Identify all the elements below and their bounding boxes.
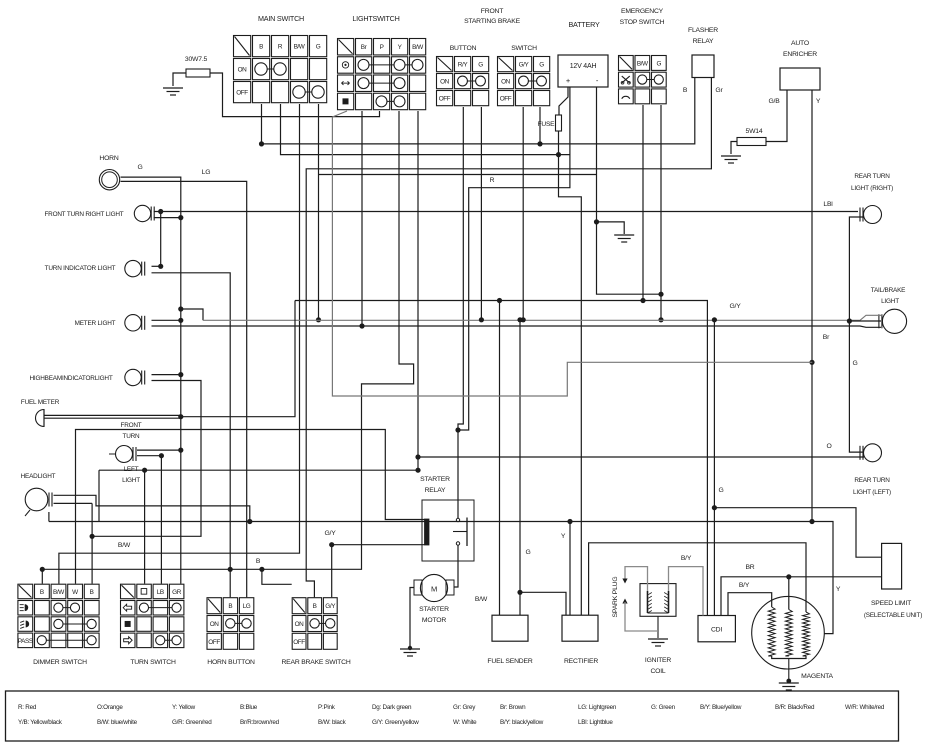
svg-text:Br/R:brown/red: Br/R:brown/red — [240, 719, 280, 726]
wire rear turn right to rear turn left link — [849, 217, 864, 452]
wire fuel meter pair — [44, 414, 181, 416]
svg-text:BUTTON: BUTTON — [450, 45, 477, 52]
rectifier — [562, 615, 598, 665]
flasher relay — [688, 27, 718, 78]
wire enricher G/B to fuse 5W14 — [766, 90, 787, 142]
main switch — [234, 36, 327, 103]
wire front turn left upper to G wire — [137, 449, 181, 451]
wire B/W line to CDI — [295, 301, 707, 616]
svg-text:Y/B: Yellow/black: Y/B: Yellow/black — [18, 719, 63, 726]
svg-text:PASS: PASS — [18, 638, 33, 645]
rear brake switch — [292, 598, 337, 650]
node fuel sender B/W on line — [497, 298, 502, 303]
node headlight feed — [247, 519, 252, 524]
svg-text:OFF: OFF — [439, 96, 451, 103]
svg-text:P:Pink: P:Pink — [318, 704, 336, 711]
svg-text:FRONT: FRONT — [120, 422, 141, 429]
svg-text:B/W: B/W — [637, 60, 649, 67]
turn switch — [121, 584, 184, 647]
wire B line step to rear brake — [262, 569, 292, 584]
node battery line on R wire — [556, 152, 561, 157]
magneto coil (center) — [785, 610, 792, 657]
node speed limit feed on CDI wire — [712, 505, 717, 510]
node turn indicator upper — [158, 264, 163, 269]
cdi — [698, 616, 735, 642]
node main switch G on meter line — [316, 317, 321, 322]
svg-text:OFF: OFF — [293, 639, 305, 646]
wire battery minus ground branch — [597, 222, 625, 234]
wire Y line riser at headlight — [48, 512, 50, 522]
node enricher Y on Y line — [809, 519, 814, 524]
node LB line right end — [415, 468, 420, 473]
svg-text:B/W: B/W — [412, 44, 424, 51]
svg-text:MAIN SWITCH: MAIN SWITCH — [258, 14, 304, 23]
wire speed limit feed — [714, 508, 881, 558]
svg-text:LBl: LBl — [823, 201, 833, 208]
svg-text:O:Orange: O:Orange — [97, 704, 123, 711]
node emergency B/W on B/W line — [640, 298, 645, 303]
wire fuse 5W14 to ground — [731, 142, 737, 155]
svg-text:B/Y: black/yellow: B/Y: black/yellow — [500, 719, 544, 726]
svg-text:ON: ON — [295, 621, 305, 628]
svg-text:G: Green: G: Green — [651, 704, 676, 711]
wire fuel sender G branch to rectifier — [520, 592, 566, 615]
speed limit unit — [864, 543, 922, 619]
legend entries — [18, 704, 885, 726]
node front turn left upper on G wire — [178, 448, 183, 453]
node light switch Br on Br wire — [359, 323, 364, 328]
svg-text:B/W: B/W — [53, 589, 65, 596]
svg-text:METER LIGHT: METER LIGHT — [75, 320, 116, 327]
svg-text:GR: GR — [172, 589, 182, 596]
svg-text:FUEL SENDER: FUEL SENDER — [487, 658, 532, 665]
front brake switch — [498, 57, 550, 106]
wire fuel meter to B/W line riser — [181, 301, 295, 417]
svg-text:G: G — [525, 549, 530, 556]
svg-text:G/Y: G/Y — [325, 603, 336, 610]
node G on gray tail wire — [809, 360, 814, 365]
fuel meter — [21, 399, 60, 427]
svg-text:REAR TURN: REAR TURN — [854, 477, 890, 484]
svg-text:LEFT: LEFT — [124, 466, 139, 473]
svg-text:REAR TURN: REAR TURN — [854, 173, 890, 180]
node front turn right lower on G wire — [178, 215, 183, 220]
svg-text:B/W: black: B/W: black — [318, 719, 347, 726]
svg-text:EMERGENCY: EMERGENCY — [621, 8, 664, 15]
magneto coil bus — [772, 656, 806, 659]
svg-text:5W14: 5W14 — [746, 128, 763, 135]
svg-text:B: B — [40, 589, 44, 596]
svg-text:SWITCH: SWITCH — [511, 45, 537, 52]
node rear brake G/Y — [329, 542, 334, 547]
magneto coil (left) — [768, 607, 775, 656]
igniter coil — [640, 584, 676, 675]
node B line branch — [259, 567, 264, 572]
svg-text:G/Y: G/Y — [519, 61, 530, 68]
wire G branch shelf to G/Y line — [181, 309, 203, 320]
wire spark plug top (gray) — [622, 567, 647, 591]
svg-text:(SELECTABLE UNIT): (SELECTABLE UNIT) — [864, 612, 922, 619]
front turn left light — [109, 422, 142, 484]
auto enricher — [780, 40, 820, 90]
svg-text:BR: BR — [745, 564, 754, 571]
svg-text:Br: Brown: Br: Brown — [500, 704, 526, 711]
node turn switch on LB line — [142, 468, 147, 473]
svg-text:RELAY: RELAY — [425, 487, 446, 494]
wire main switch G pin to meter light line — [318, 104, 320, 320]
node rear turn link on G/Y line — [847, 318, 852, 323]
svg-text:G: G — [539, 61, 544, 68]
wire rear turn light (left) feed — [418, 456, 864, 458]
node front brake switch G on B wire — [537, 141, 542, 146]
wire dimmer first B pin up — [41, 569, 43, 583]
svg-text:O: O — [826, 443, 831, 450]
node R join R/Y — [455, 427, 460, 432]
fuse 5W14 — [737, 128, 766, 146]
svg-text:R/Y: R/Y — [458, 61, 469, 68]
svg-text:LBl: Lightblue: LBl: Lightblue — [578, 719, 613, 726]
svg-text:Y: Y — [561, 533, 566, 540]
svg-text:G: G — [656, 60, 661, 67]
svg-text:TURN INDICATOR LIGHT: TURN INDICATOR LIGHT — [45, 265, 116, 272]
wire light switch Y chain to horn button B line — [42, 111, 413, 569]
wire battery plus through fuse — [559, 87, 568, 115]
rear turn light (right) — [851, 173, 893, 224]
node G wire meter branch — [178, 306, 183, 311]
wire CDI B/Y to magneto left coil — [728, 593, 772, 616]
svg-text:STARTER: STARTER — [419, 606, 449, 613]
svg-text:Gr: Grey: Gr: Grey — [453, 704, 476, 711]
svg-text:DIMMER SWITCH: DIMMER SWITCH — [33, 659, 87, 666]
magneto coil (right) — [803, 612, 810, 656]
svg-text:ON: ON — [501, 79, 511, 86]
wire dimmer B pin up to headlight — [91, 503, 93, 583]
wire turn switch lane pin to LB line — [144, 470, 146, 584]
headlight — [21, 473, 56, 516]
svg-text:FRONT: FRONT — [481, 8, 503, 15]
svg-text:MOTOR: MOTOR — [422, 617, 446, 624]
wire turn switch LB pin — [160, 456, 162, 584]
svg-text:ON: ON — [238, 67, 248, 74]
svg-text:BATTERY: BATTERY — [568, 20, 599, 29]
svg-text:B: B — [683, 87, 688, 94]
wire fuel sender B/W pin — [499, 301, 501, 616]
svg-text:LG: LG — [202, 169, 211, 176]
svg-text:G: G — [852, 360, 857, 367]
battery — [558, 20, 608, 87]
wire emergency stop B/W pin — [642, 105, 644, 301]
horn — [99, 155, 119, 190]
front brake button — [437, 57, 489, 106]
svg-text:B/Y: B/Y — [681, 555, 692, 562]
tail/brake light — [871, 287, 907, 333]
horn button — [207, 598, 254, 650]
ground (30W7.5) — [163, 88, 183, 95]
svg-text:R: R — [490, 177, 495, 184]
svg-text:12V 4AH: 12V 4AH — [570, 63, 597, 70]
svg-text:OFF: OFF — [208, 639, 220, 646]
svg-text:LIGHT: LIGHT — [881, 298, 899, 305]
wire front brake button G pin — [480, 107, 482, 320]
svg-text:G/Y: Green/yellow: G/Y: Green/yellow — [372, 719, 419, 726]
node battery minus ground tap — [594, 219, 599, 224]
svg-text:LG: LG — [243, 603, 251, 610]
wire front turn left lower to turn switch LB — [137, 455, 161, 457]
wire magneto to ground — [788, 659, 790, 684]
svg-text:LIGHTSWITCH: LIGHTSWITCH — [352, 14, 399, 23]
emergency stop switch — [619, 56, 667, 104]
wire main switch G horizontal to battery minus line — [319, 174, 597, 176]
svg-text:HIGHBEAMINDICATORLIGHT: HIGHBEAMINDICATORLIGHT — [29, 375, 112, 382]
svg-text:M: M — [431, 585, 437, 594]
node fuel meter on G wire — [178, 414, 183, 419]
wire front brake switch G pin — [539, 107, 541, 144]
svg-text:B/W: B/W — [475, 596, 488, 603]
node rectifier on Y line — [567, 519, 572, 524]
svg-text:HEADLIGHT: HEADLIGHT — [21, 473, 56, 480]
wire fuel sender G pin — [519, 320, 521, 615]
svg-text:TAIL/BRAKE: TAIL/BRAKE — [871, 287, 905, 294]
ground (battery) — [614, 235, 634, 242]
wire battery plus to rectifier — [559, 131, 582, 615]
wire battery minus to ground tap — [597, 87, 662, 294]
front turn right light — [44, 205, 154, 221]
rear turn light (left) — [853, 444, 891, 496]
wire main switch R to battery plus and starter relay — [281, 104, 570, 155]
svg-text:OFF: OFF — [236, 90, 248, 97]
wire meter light lower to tail light Br — [152, 326, 882, 327]
svg-text:Y: Y — [816, 98, 821, 105]
node dimmer B on high beam wire — [90, 534, 95, 539]
svg-text:G/B: G/B — [768, 98, 780, 105]
node front turn left lower — [159, 453, 164, 458]
node emergency G join battery minus — [658, 292, 663, 297]
svg-text:FUEL METER: FUEL METER — [21, 399, 60, 406]
wire horn LG down to horn button LG — [121, 181, 247, 597]
svg-text:B/W: blue/white: B/W: blue/white — [97, 719, 138, 726]
node main switch B — [259, 141, 264, 146]
svg-text:TURN SWITCH: TURN SWITCH — [130, 659, 176, 666]
svg-text:B/Y: Blue/yellow: B/Y: Blue/yellow — [700, 704, 742, 711]
node horn button B on B wire — [228, 567, 233, 572]
spark plug — [612, 577, 619, 618]
high beam indicator light — [29, 369, 144, 385]
wire G/Y to relay — [332, 544, 425, 546]
wire emergency stop G pin — [660, 105, 662, 320]
svg-text:LG: Lightgreen: LG: Lightgreen — [578, 704, 617, 711]
wire light switch B/W pin down — [417, 111, 419, 470]
light switch — [338, 39, 426, 110]
wire front brake switch G/Y pin — [522, 107, 524, 320]
wire turn indicator upper terminal — [152, 265, 161, 267]
svg-text:G: G — [137, 164, 142, 171]
wire fuse30 to ground — [173, 73, 186, 86]
node switch G/Y on G/Y line — [521, 317, 526, 322]
node button G on G/Y line — [479, 317, 484, 322]
svg-text:G: G — [718, 487, 723, 494]
wire igniter coil to ground — [657, 616, 659, 638]
wire LB line to rear turn left riser — [99, 469, 418, 471]
magneto — [752, 596, 825, 669]
svg-text:FRONT TURN RIGHT LIGHT: FRONT TURN RIGHT LIGHT — [44, 211, 123, 218]
wire light switch Br pin — [361, 111, 363, 326]
svg-text:FUSE: FUSE — [538, 121, 556, 128]
svg-text:OFF: OFF — [500, 96, 512, 103]
wire turn light feed vertical — [160, 212, 162, 267]
wire CDI BR to speed limit — [721, 577, 882, 616]
wire LB line left riser — [98, 470, 100, 521]
wire G/Y line to tail light (gray) — [203, 315, 881, 320]
fuse 30W7.5 — [185, 56, 210, 77]
wire headlight lower terminal — [54, 502, 93, 504]
wire dimmer W to starter relay coil — [76, 430, 425, 584]
node CDI feed on G/Y line — [712, 317, 717, 322]
svg-text:P: P — [380, 44, 384, 51]
svg-text:B/W: B/W — [118, 542, 131, 549]
node high beam on G wire — [178, 372, 183, 377]
node fuel sender G branch — [517, 590, 522, 595]
starter motor — [414, 574, 454, 624]
svg-text:G/R: Green/red: G/R: Green/red — [172, 719, 212, 726]
wire CDI B/Y to igniter coil (gray) — [669, 567, 704, 616]
svg-text:HORN BUTTON: HORN BUTTON — [207, 659, 255, 666]
svg-text:FLASHER: FLASHER — [688, 27, 718, 34]
svg-text:B: B — [90, 589, 94, 596]
wire spark plug bottom (gray) — [622, 599, 658, 632]
ground (5W14) — [721, 156, 741, 163]
wire main switch B to flasher B — [262, 78, 695, 144]
fuel sender — [487, 615, 532, 665]
svg-text:G: G — [478, 61, 483, 68]
svg-text:STARTING BRAKE: STARTING BRAKE — [464, 18, 521, 25]
svg-text:Gr: Gr — [715, 87, 723, 94]
svg-text:ON: ON — [440, 79, 450, 86]
wire CDI feed up — [713, 320, 715, 616]
node fuel sender G top — [517, 317, 522, 322]
svg-text:MAGENTA: MAGENTA — [801, 673, 833, 680]
svg-text:B: B — [313, 603, 317, 610]
svg-text:STOP SWITCH: STOP SWITCH — [620, 19, 665, 26]
svg-text:TURN: TURN — [123, 433, 141, 440]
svg-text:B/R: Black/Red: B/R: Black/Red — [775, 704, 815, 711]
svg-text:Br: Br — [823, 334, 830, 341]
wire Y line to magneto — [49, 522, 833, 634]
fuse (battery) — [556, 115, 562, 131]
svg-text:AUTO: AUTO — [791, 40, 809, 47]
svg-text:REAR BRAKE SWITCH: REAR BRAKE SWITCH — [281, 659, 350, 666]
turn indicator light — [45, 260, 145, 276]
svg-text:G: G — [316, 43, 321, 50]
wire fuse30 to light switch P pin — [210, 73, 380, 117]
svg-text:CDI: CDI — [711, 627, 722, 634]
node rear turn left on riser — [415, 454, 420, 459]
svg-text:SPEED LIMIT: SPEED LIMIT — [871, 600, 911, 607]
svg-text:RELAY: RELAY — [693, 38, 714, 45]
svg-text:G/Y: G/Y — [729, 303, 741, 310]
wire starter motor to ground — [410, 588, 414, 649]
svg-text:ENRICHER: ENRICHER — [783, 51, 817, 58]
wire high beam upper terminal to G wire — [152, 374, 181, 376]
svg-text:STARTER: STARTER — [420, 476, 450, 483]
svg-text:B: B — [256, 558, 261, 565]
svg-text:R: Red: R: Red — [18, 704, 37, 711]
svg-text:LIGHT (RIGHT): LIGHT (RIGHT) — [851, 185, 893, 192]
svg-text:G/Y: G/Y — [324, 530, 336, 537]
wire front turn right light to rear turn light (right) — [154, 211, 858, 213]
wire battery plus down to R elbow — [458, 87, 570, 430]
svg-text:B/W: B/W — [294, 43, 306, 50]
svg-text:B/Y: B/Y — [739, 582, 750, 589]
meter light — [75, 315, 145, 331]
svg-text:B:Blue: B:Blue — [240, 704, 258, 711]
svg-text:30W7.5: 30W7.5 — [185, 56, 208, 63]
wire rectifier Y pin — [569, 522, 571, 616]
wire front brake button R/Y to starter relay contact — [458, 107, 463, 518]
ground (starter motor) — [400, 646, 420, 656]
svg-text:B: B — [228, 603, 232, 610]
wire headlight upper terminal to long feed — [54, 495, 250, 521]
wire high beam lower to dimmer B — [92, 381, 201, 537]
wire light switch to tail light G (gray) — [332, 111, 812, 396]
node front turn right upper — [158, 209, 163, 214]
svg-text:LIGHT (LEFT): LIGHT (LEFT) — [853, 489, 891, 496]
node magneto center coil on BR wire — [786, 574, 791, 579]
legend box — [6, 691, 899, 741]
node dimmer B on B line — [40, 567, 45, 572]
svg-text:COIL: COIL — [650, 668, 665, 675]
node meter upper on G wire — [178, 318, 183, 323]
svg-text:B: B — [259, 43, 263, 50]
wire turn indicator lower to horn button B — [152, 273, 231, 597]
svg-text:IGNITER: IGNITER — [645, 657, 671, 664]
svg-text:Dg: Dark green: Dg: Dark green — [372, 704, 412, 711]
wire magneto center coil up — [788, 577, 790, 610]
wire rear brake G/Y to starter relay coil — [331, 545, 333, 598]
starter relay — [420, 476, 474, 561]
wire enricher Y pin down — [811, 90, 813, 522]
ground (igniter) — [648, 639, 668, 646]
svg-text:Y: Yellow: Y: Yellow — [172, 704, 196, 711]
wire main switch B/W to dimmer B/W — [59, 104, 300, 584]
svg-text:ON: ON — [210, 621, 220, 628]
svg-text:W: White: W: White — [453, 719, 477, 726]
svg-text:Y: Y — [836, 586, 841, 593]
svg-text:LB: LB — [157, 589, 164, 596]
dimmer switch — [18, 584, 99, 647]
wire flasher Gr to rear brake switch B — [306, 78, 711, 598]
svg-text:W/R: White/red: W/R: White/red — [845, 704, 885, 711]
svg-text:LIGHT: LIGHT — [122, 477, 140, 484]
wire relay contact to starter motor — [454, 546, 458, 588]
svg-text:SPARK PLUG: SPARK PLUG — [612, 577, 619, 618]
wire front turn right lower terminal to G wire — [154, 217, 181, 219]
wire tail light middle terminal — [849, 320, 881, 322]
node emergency G on meter line — [658, 317, 663, 322]
wire magneto right coil to rectifier — [589, 543, 806, 615]
wire horn G down to turn switch GR — [121, 177, 181, 584]
svg-text:HORN: HORN — [99, 155, 119, 162]
svg-text:RECTIFIER: RECTIFIER — [564, 658, 598, 665]
ground (magneto) — [779, 679, 799, 690]
wire meter light upper terminal to G wire — [152, 319, 181, 321]
